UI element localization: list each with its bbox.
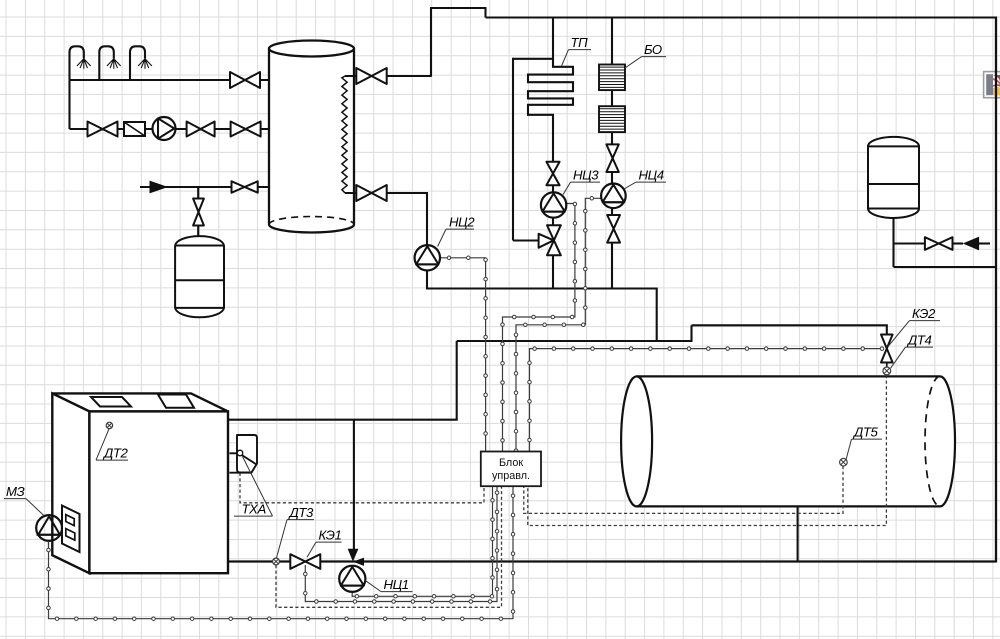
- svg-text:НЦ4: НЦ4: [639, 168, 664, 183]
- svg-text:НЦ3: НЦ3: [573, 168, 599, 183]
- svg-text:ТХА: ТХА: [242, 502, 267, 517]
- svg-text:КЭ1: КЭ1: [319, 528, 342, 543]
- svg-text:ТП: ТП: [571, 35, 589, 50]
- svg-text:НЦ1: НЦ1: [384, 577, 409, 592]
- svg-text:НЦ2: НЦ2: [449, 215, 475, 230]
- svg-text:Блок: Блок: [499, 457, 523, 469]
- svg-text:управл.: управл.: [492, 470, 530, 482]
- svg-text:МЗ: МЗ: [6, 484, 25, 499]
- svg-text:ДТ3: ДТ3: [288, 505, 315, 520]
- svg-text:КЭ2: КЭ2: [912, 306, 936, 321]
- svg-text:ДТ5: ДТ5: [852, 425, 879, 440]
- svg-text:БО: БО: [644, 42, 662, 57]
- svg-text:ДТ2: ДТ2: [102, 446, 129, 461]
- svg-text:ДТ4: ДТ4: [906, 333, 932, 348]
